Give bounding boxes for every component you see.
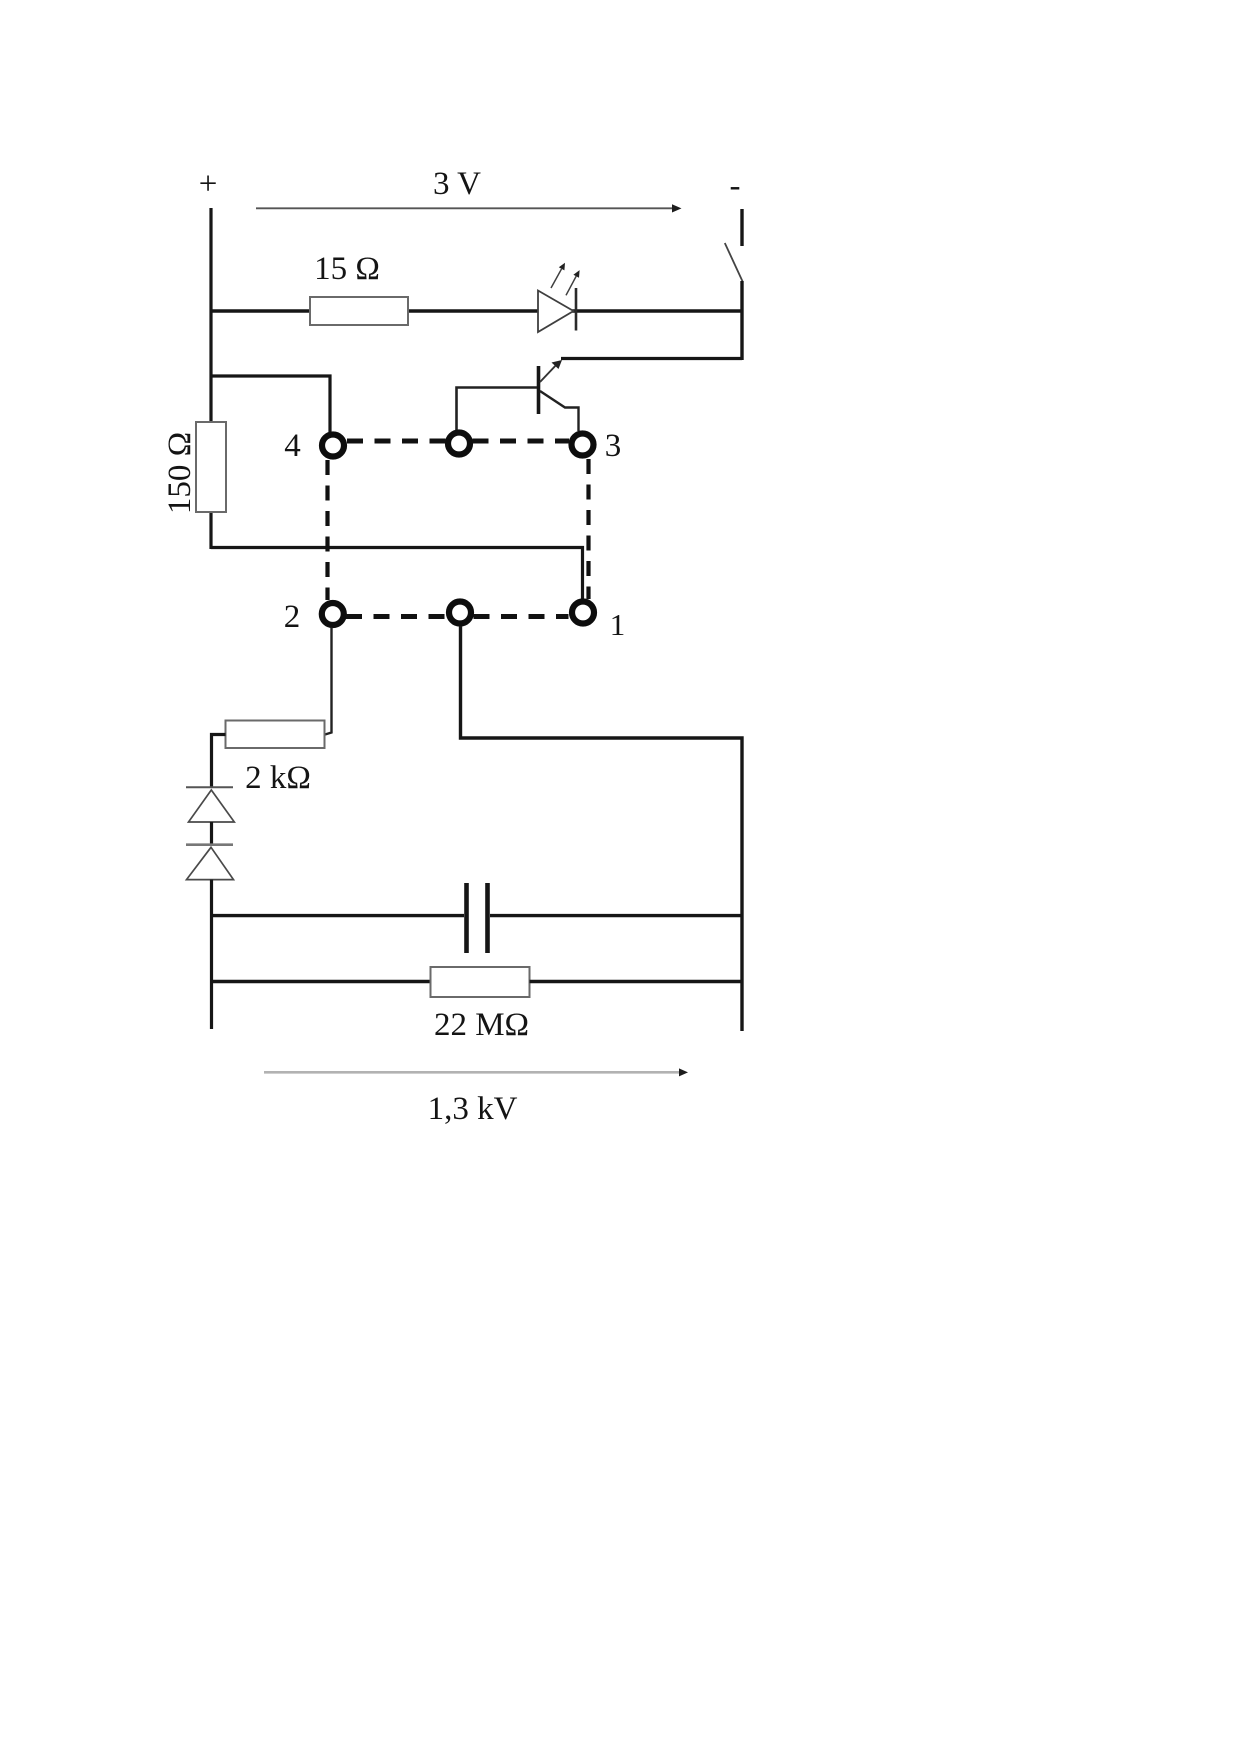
svg-text:1,3 kV: 1,3 kV	[428, 1091, 518, 1127]
svg-text:22 MΩ: 22 MΩ	[434, 1007, 529, 1043]
svg-text:15 Ω: 15 Ω	[314, 251, 380, 287]
svg-text:2 kΩ: 2 kΩ	[245, 760, 311, 796]
svg-text:-: -	[730, 168, 741, 204]
svg-text:+: +	[199, 166, 218, 202]
svg-text:3 V: 3 V	[433, 166, 481, 202]
svg-text:1: 1	[610, 607, 626, 642]
svg-text:3: 3	[605, 428, 622, 464]
svg-text:150 Ω: 150 Ω	[162, 432, 198, 514]
svg-text:2: 2	[284, 599, 301, 635]
svg-text:4: 4	[284, 428, 301, 464]
